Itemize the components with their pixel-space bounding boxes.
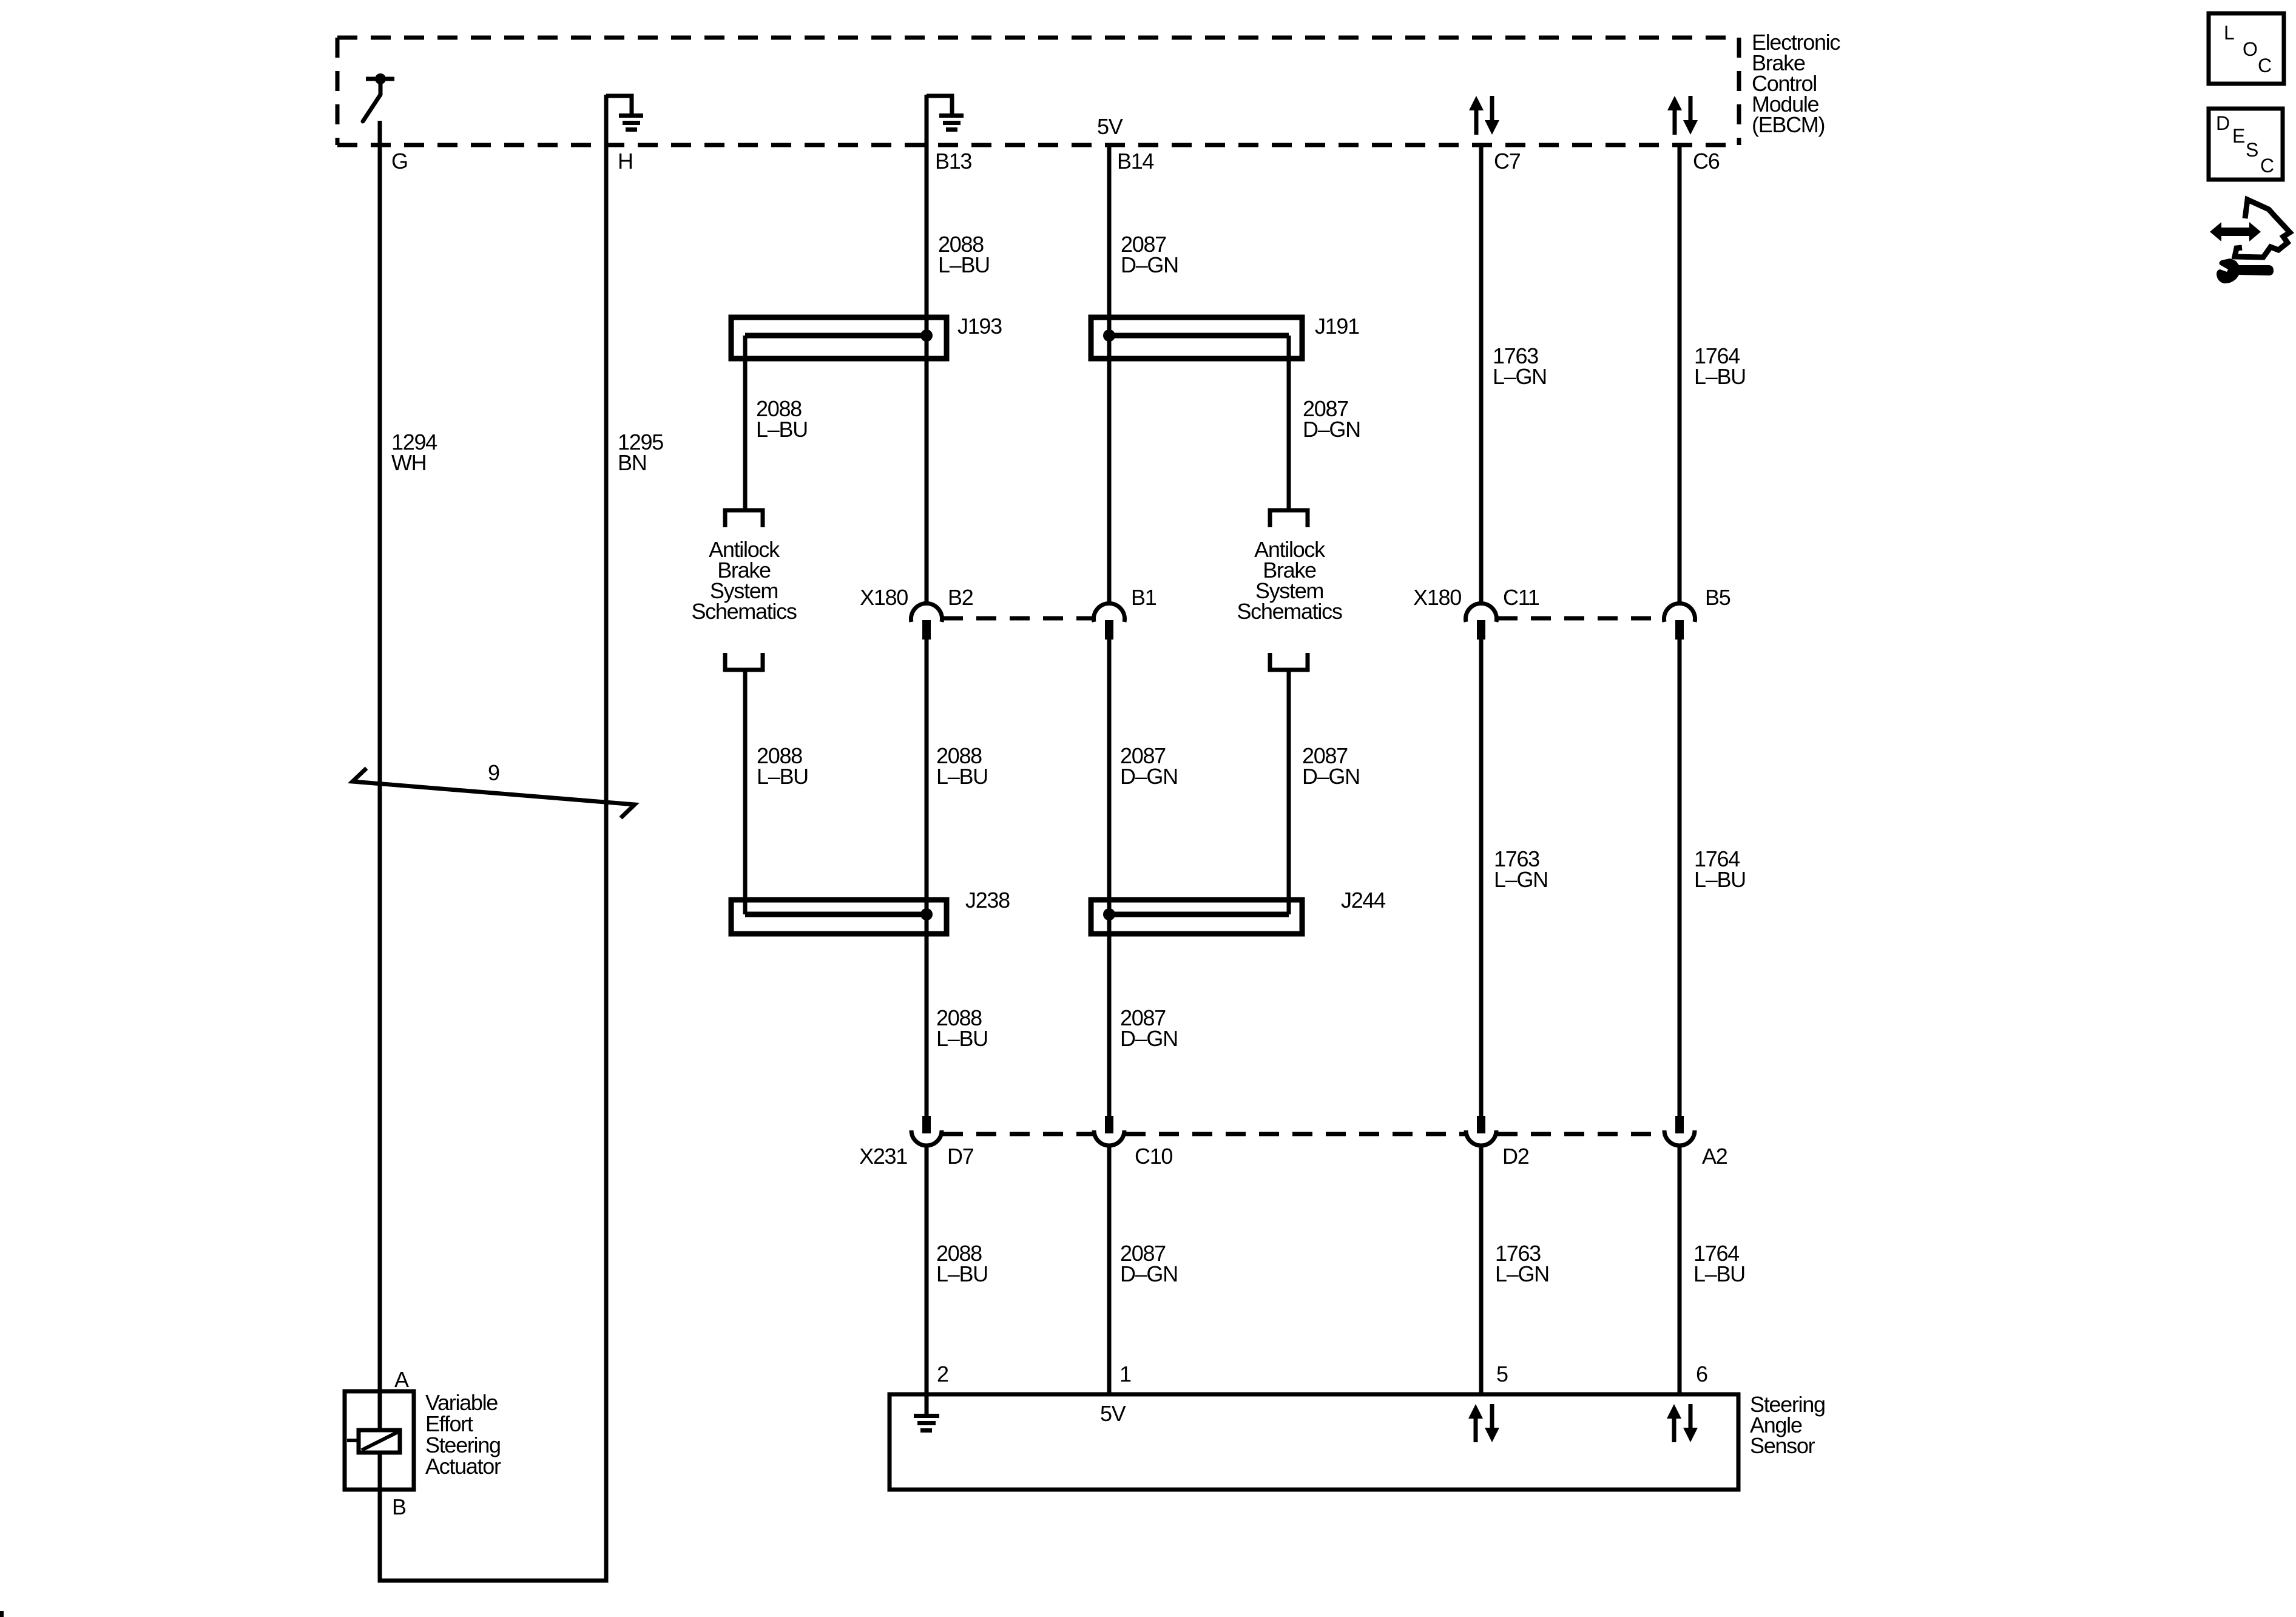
svg-text:L–BU: L–BU	[1694, 364, 1746, 389]
svg-text:C: C	[2258, 55, 2271, 76]
svg-text:Schematics: Schematics	[691, 599, 796, 624]
connector X231 terminal D7	[911, 1116, 942, 1146]
branch wire 2087 from ABS schematics connector to J244	[1287, 670, 1291, 914]
svg-text:L–BU: L–BU	[936, 1026, 988, 1051]
splice J193 box	[731, 317, 947, 359]
svg-text:BN: BN	[618, 450, 646, 475]
svg-text:O: O	[2243, 38, 2257, 60]
svg-text:A: A	[394, 1367, 409, 1392]
bidirectional arrows inside sensor at pin 5	[1468, 1404, 1499, 1442]
svg-text:D–GN: D–GN	[1120, 1026, 1178, 1051]
svg-text:C11: C11	[1503, 585, 1539, 610]
svg-text:L–GN: L–GN	[1495, 1261, 1549, 1286]
connector X231 terminal C10	[1094, 1116, 1124, 1146]
svg-text:S: S	[2246, 139, 2258, 161]
actuator label text	[425, 1390, 501, 1479]
wire label 1763 L-GN (C7, bottom)	[1495, 1241, 1549, 1286]
svg-text:C: C	[2260, 155, 2274, 177]
connector view icon: connector outline	[2235, 200, 2290, 257]
svg-text:L–BU: L–BU	[936, 1261, 988, 1286]
wire label 2088 L-BU (left branch, middle)	[757, 743, 808, 789]
wire 1763 L-GN (C7) upper segment	[1479, 145, 1484, 605]
off-page connector bracket (top right)	[1270, 510, 1308, 527]
dashed connector line D7-C10	[943, 1132, 1093, 1136]
splice J238 box	[731, 900, 947, 934]
svg-text:5: 5	[1496, 1362, 1508, 1386]
svg-text:9: 9	[488, 760, 499, 785]
Variable Effort Steering Actuator box	[345, 1391, 414, 1490]
svg-text:L–GN: L–GN	[1494, 867, 1548, 892]
svg-text:D–GN: D–GN	[1303, 417, 1360, 442]
wire crossing reference 9 (diagonal)	[353, 768, 635, 818]
branch wire label 2088 L-BU (left)	[756, 396, 808, 442]
wire label 2088 L-BU below B13	[938, 232, 990, 277]
branch wire 2088 from ABS schematics connector to J238	[743, 670, 748, 914]
switch (inside EBCM) at pin G	[363, 73, 394, 121]
wire label 1295 BN	[618, 430, 663, 475]
wire label 1764 L-BU below C6	[1694, 343, 1746, 389]
bidirectional arrows inside EBCM at pin C6	[1667, 96, 1698, 135]
svg-text:1: 1	[1119, 1362, 1131, 1386]
svg-text:H: H	[618, 149, 633, 174]
dashed connector line C10-D2	[1126, 1132, 1465, 1136]
svg-text:L–BU: L–BU	[757, 764, 808, 789]
splice J191 box	[1091, 317, 1302, 359]
svg-text:C10: C10	[1135, 1144, 1172, 1169]
wire label 1763 L-GN (C7, middle)	[1494, 846, 1548, 892]
wire label 2088 L-BU (B13, middle)	[936, 743, 988, 789]
svg-text:E: E	[2232, 125, 2244, 147]
EBCM module dashed box	[337, 38, 1739, 145]
Steering Angle Sensor box	[890, 1394, 1738, 1490]
wire label 1294 WH	[391, 430, 437, 475]
connector view icon: double arrow	[2210, 222, 2261, 241]
wire 2087 D-GN (B14) upper segment	[1107, 145, 1112, 605]
svg-text:L–BU: L–BU	[938, 252, 990, 277]
svg-text:B5: B5	[1705, 585, 1730, 610]
wire label 2087 D-GN (B14, bottom)	[1120, 1241, 1178, 1286]
svg-text:B2: B2	[948, 585, 973, 610]
scan speck bottom-left	[0, 1611, 4, 1617]
svg-text:X180: X180	[860, 585, 908, 610]
connector X231 terminal A2	[1664, 1116, 1695, 1146]
Antilock Brake System Schematics reference (right)	[1237, 537, 1342, 624]
svg-text:C6: C6	[1693, 149, 1720, 174]
svg-text:J244: J244	[1341, 888, 1385, 913]
ground symbol inside EBCM at pin H	[606, 96, 643, 132]
svg-text:D2: D2	[1502, 1144, 1529, 1169]
svg-text:5V: 5V	[1100, 1401, 1126, 1426]
svg-text:(EBCM): (EBCM)	[1752, 112, 1825, 137]
wire 2087 D-GN (B14) lower segment	[1107, 1147, 1112, 1394]
wire label 2088 L-BU (B13, lower)	[936, 1005, 988, 1051]
branch wire label 2087 D-GN (right)	[1303, 396, 1360, 442]
connector X231 terminal D2	[1466, 1116, 1496, 1146]
dashed connector line B2-B1	[943, 616, 1093, 621]
connector X180 terminal B5	[1664, 603, 1695, 640]
sensor label text	[1750, 1392, 1825, 1458]
svg-text:J238: J238	[965, 888, 1010, 913]
svg-text:J191: J191	[1315, 314, 1359, 339]
actuator solenoid symbol	[347, 1430, 400, 1453]
LOC hotlink box	[2209, 13, 2284, 84]
svg-text:B14: B14	[1117, 149, 1153, 174]
svg-text:L–BU: L–BU	[756, 417, 808, 442]
wire 2088 L-BU (B13) upper segment	[925, 95, 929, 605]
splice J244 box	[1091, 900, 1302, 934]
svg-text:D–GN: D–GN	[1120, 764, 1178, 789]
wire label 2088 L-BU (B13, bottom)	[936, 1241, 988, 1286]
svg-text:Actuator: Actuator	[425, 1454, 501, 1479]
svg-text:WH: WH	[391, 450, 426, 475]
wire label 2087 D-GN below B14	[1121, 232, 1178, 277]
branch wire 2088 from J193 to ABS schematics connector	[743, 336, 748, 510]
wire 1294 WH from pin G to actuator pin A	[378, 121, 382, 1430]
svg-text:A2: A2	[1702, 1144, 1727, 1169]
connector X180 terminal C11	[1466, 603, 1497, 640]
svg-text:B1: B1	[1131, 585, 1156, 610]
off-page connector bracket (top left)	[725, 510, 763, 527]
wire 2087 D-GN (B14) middle segment	[1107, 640, 1112, 1116]
svg-text:X180: X180	[1413, 585, 1461, 610]
DESC hotlink box	[2209, 109, 2283, 180]
svg-text:D: D	[2216, 112, 2229, 134]
svg-text:D–GN: D–GN	[1120, 1261, 1178, 1286]
off-page connector bracket (bottom right)	[1270, 653, 1308, 670]
Antilock Brake System Schematics reference (left)	[691, 537, 796, 624]
connector X180 terminal B2	[911, 603, 942, 640]
svg-text:L: L	[2224, 22, 2234, 44]
wire 1763 L-GN (C7) lower segment	[1479, 1147, 1484, 1394]
branch wire 2087 from J191 to ABS schematics connector	[1287, 336, 1291, 510]
svg-text:X231: X231	[859, 1144, 907, 1169]
svg-text:L–GN: L–GN	[1493, 364, 1547, 389]
ground symbol inside EBCM at pin B13	[927, 96, 964, 132]
dashed connector line C11-B5	[1497, 616, 1663, 621]
svg-text:L–BU: L–BU	[936, 764, 988, 789]
svg-text:D7: D7	[947, 1144, 974, 1169]
dashed connector line D2-A2	[1497, 1132, 1663, 1136]
off-page connector bracket (bottom left)	[725, 653, 763, 670]
wire label 1763 L-GN below C7	[1493, 343, 1547, 389]
svg-text:2: 2	[937, 1362, 948, 1386]
ground symbol inside sensor at pin 2	[914, 1414, 939, 1433]
wire label 2087 D-GN (B14, lower)	[1120, 1005, 1178, 1051]
connector X180 terminal B1	[1094, 603, 1125, 640]
svg-text:5V: 5V	[1097, 114, 1123, 139]
wire label 2087 D-GN (B14, middle)	[1120, 743, 1178, 789]
bidirectional arrows inside EBCM at pin C7	[1469, 96, 1499, 135]
svg-text:L–BU: L–BU	[1694, 867, 1746, 892]
svg-text:D–GN: D–GN	[1302, 764, 1360, 789]
wire from actuator pin B down and across to pin H (1295 BN)	[380, 95, 606, 1581]
bidirectional arrows inside sensor at pin 6	[1667, 1404, 1698, 1442]
wire 1764 L-BU (C6) lower segment	[1678, 1147, 1682, 1394]
svg-text:B13: B13	[935, 149, 971, 174]
EBCM label text	[1752, 30, 1840, 137]
svg-text:6: 6	[1696, 1362, 1707, 1386]
wire 2088 L-BU (B13) middle segment	[925, 640, 929, 1116]
svg-text:Sensor: Sensor	[1750, 1433, 1815, 1458]
wire 1764 L-BU (C6) middle segment	[1678, 640, 1682, 1116]
wire 1763 L-GN (C7) middle segment	[1479, 640, 1484, 1116]
wire inside actuator below solenoid	[378, 1453, 382, 1490]
svg-text:Schematics: Schematics	[1237, 599, 1342, 624]
svg-text:G: G	[391, 149, 408, 174]
wire label 1764 L-BU (C6, bottom)	[1693, 1241, 1745, 1286]
svg-text:C7: C7	[1494, 149, 1521, 174]
wire 2088 L-BU (B13) lower segment	[925, 1147, 929, 1414]
wire label 1764 L-BU (C6, middle)	[1694, 846, 1746, 892]
connector view icon: wrench	[2217, 258, 2274, 283]
wire 1764 L-BU (C6) upper segment	[1678, 145, 1682, 605]
svg-text:D–GN: D–GN	[1121, 252, 1178, 277]
svg-text:L–BU: L–BU	[1693, 1261, 1745, 1286]
svg-text:J193: J193	[957, 314, 1002, 339]
wire label 2087 D-GN (right branch, middle)	[1302, 743, 1360, 789]
svg-text:B: B	[392, 1494, 406, 1519]
